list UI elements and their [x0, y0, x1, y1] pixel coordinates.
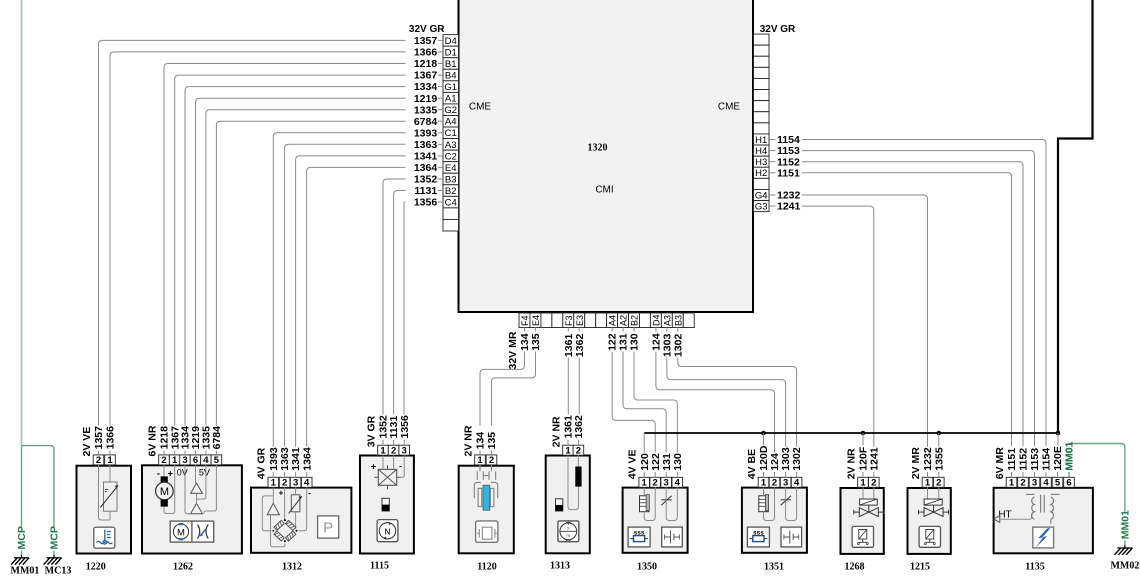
svg-text:5V: 5V: [199, 468, 210, 478]
svg-text:1356: 1356: [414, 197, 438, 209]
svg-text:A4: A4: [608, 315, 618, 326]
svg-text:1: 1: [380, 445, 386, 456]
ECU left pin B1: [443, 58, 459, 70]
svg-text:1151: 1151: [1006, 448, 1018, 471]
svg-text:1350: 1350: [637, 562, 657, 573]
svg-text:3: 3: [293, 478, 298, 489]
ECU bottom pin A3: [661, 313, 672, 328]
svg-text:3: 3: [182, 455, 187, 466]
ECU right pin G4: [754, 189, 770, 200]
svg-text:2: 2: [936, 478, 941, 489]
ECU right pin spare: [754, 178, 770, 189]
svg-text:2V MR: 2V MR: [910, 447, 922, 480]
svg-text:D1: D1: [445, 47, 457, 58]
ECU right pin G3: [754, 201, 770, 212]
svg-text:B3: B3: [445, 174, 457, 185]
svg-text:32V GR: 32V GR: [409, 24, 445, 35]
svg-text:+: +: [168, 469, 174, 480]
ECU bottom pin B2: [629, 313, 640, 328]
wire 1362 label at ECU: [578, 328, 580, 332]
svg-text:6: 6: [1066, 478, 1071, 489]
svg-text:4: 4: [675, 478, 681, 489]
svg-text:2: 2: [391, 445, 396, 456]
svg-text:4: 4: [794, 478, 800, 489]
svg-text:2V NR: 2V NR: [462, 425, 474, 456]
svg-text:6: 6: [193, 455, 198, 466]
svg-text:2: 2: [576, 445, 581, 456]
svg-text:2: 2: [161, 455, 166, 466]
svg-text:B1: B1: [445, 59, 457, 70]
svg-text:1262: 1262: [173, 562, 193, 573]
wire MCP lower segment: [21, 446, 23, 528]
svg-text:1313: 1313: [550, 561, 570, 572]
svg-text:1241: 1241: [868, 447, 880, 471]
svg-text:3V GR: 3V GR: [365, 415, 377, 447]
svg-text:1: 1: [761, 478, 767, 489]
svg-text:N: N: [384, 526, 390, 536]
ground MC13: [44, 555, 62, 565]
ECU right pin spare: [754, 90, 770, 101]
svg-text:2V NR: 2V NR: [550, 416, 562, 447]
svg-text:m: m: [566, 533, 570, 538]
svg-text:D4: D4: [445, 36, 457, 47]
component 1220 coolant temperature sensor: [77, 466, 132, 554]
svg-text:H2: H2: [755, 168, 767, 179]
svg-text:2: 2: [871, 478, 876, 489]
svg-text:3: 3: [1032, 478, 1037, 489]
wire 1153 from ECU pin: [770, 150, 776, 152]
component 1135 ignition coil: [994, 488, 1093, 554]
svg-text:1302: 1302: [672, 334, 684, 358]
wire 1302 label at ECU: [677, 328, 679, 332]
svg-text:-: -: [308, 488, 311, 498]
svg-text:135: 135: [486, 432, 498, 450]
svg-text:1366: 1366: [105, 426, 117, 450]
ECU bottom pin spare: [683, 313, 694, 328]
wire 120 bus: [644, 432, 1059, 434]
ECU bottom pin E3: [574, 313, 585, 328]
svg-text:6V MR: 6V MR: [994, 447, 1006, 480]
ECU bottom pin A2: [618, 313, 629, 328]
svg-text:6784: 6784: [414, 116, 438, 128]
component 1215 solenoid valve: [908, 488, 951, 554]
svg-text:F3: F3: [564, 315, 574, 326]
svg-text:1232: 1232: [922, 447, 934, 471]
wire 131 run: [623, 352, 666, 453]
wire MM01 dash: [1124, 541, 1126, 545]
svg-text:2: 2: [489, 455, 494, 466]
svg-text:1115: 1115: [370, 561, 389, 572]
svg-text:1219: 1219: [414, 93, 438, 105]
svg-text:CMI: CMI: [595, 185, 613, 196]
wire 1361 run: [567, 358, 569, 415]
svg-text:A2: A2: [619, 315, 629, 326]
component 1120 injector: [459, 466, 514, 554]
svg-text:H3: H3: [755, 157, 767, 168]
ECU bottom pin spare: [639, 313, 650, 328]
wire 120D riser to 1351 pin1: [763, 433, 765, 446]
ground MM01: [11, 555, 29, 565]
svg-text:120E: 120E: [1052, 446, 1064, 471]
svg-text:MM01: MM01: [1064, 441, 1076, 470]
svg-text:1: 1: [477, 455, 483, 466]
svg-text:G4: G4: [755, 190, 768, 201]
svg-text:1131: 1131: [414, 185, 437, 197]
svg-text:6V NR: 6V NR: [146, 425, 158, 456]
svg-text:1341: 1341: [414, 151, 438, 163]
ECU bottom pin F3: [563, 313, 574, 328]
junction at x=938.8: [937, 431, 942, 436]
svg-text:1356: 1356: [399, 415, 411, 439]
svg-text:M: M: [160, 486, 169, 498]
svg-text:2: 2: [1020, 478, 1025, 489]
svg-text:1241: 1241: [777, 201, 801, 213]
svg-text:MM01: MM01: [11, 566, 40, 577]
ECU left pin D1: [443, 46, 459, 58]
svg-text:+: +: [371, 462, 377, 473]
component 1262 throttle actuator: [142, 465, 242, 553]
svg-text:32V GR: 32V GR: [760, 24, 796, 35]
ECU left pin G1: [443, 81, 459, 93]
svg-text:2: 2: [772, 478, 777, 489]
wire 134 label at ECU: [524, 328, 526, 332]
junction at x=1058.0: [1056, 431, 1061, 436]
wire 120E riser to 1135 pin5: [1057, 433, 1059, 446]
svg-text:1362: 1362: [573, 415, 585, 439]
svg-text:A3: A3: [662, 315, 672, 326]
ECU bottom pin F4: [519, 313, 530, 328]
svg-text:B2: B2: [445, 186, 457, 197]
component 1115 engine speed sensor: [360, 456, 414, 554]
svg-text:1320: 1320: [588, 143, 608, 154]
svg-text:A3: A3: [445, 140, 457, 151]
svg-text:G2: G2: [444, 105, 457, 116]
svg-text:H1: H1: [755, 135, 767, 146]
svg-text:1357: 1357: [93, 426, 105, 450]
ECU bottom pin spare: [541, 313, 552, 328]
svg-text:MM01: MM01: [1120, 510, 1132, 539]
wire 1302 run: [678, 358, 797, 447]
ECU left pin A3: [443, 139, 459, 151]
ECU left pin D4: [443, 35, 459, 47]
svg-text:1351: 1351: [764, 562, 784, 573]
wire 1232 from ECU pin: [770, 194, 776, 196]
wire MCP branch to MC13: [22, 446, 55, 528]
wire 1241 from ECU pin: [770, 205, 776, 207]
svg-text:E4: E4: [445, 163, 457, 174]
component 1351 glow plug module: [742, 488, 807, 553]
svg-text:2V VE: 2V VE: [81, 427, 93, 457]
wire 1151 from ECU pin: [770, 172, 776, 174]
ECU left pin E4: [443, 162, 459, 174]
ECU right pin H2: [754, 167, 770, 178]
component 1312 pressure sensor: [251, 488, 351, 553]
svg-text:CME: CME: [718, 102, 741, 113]
svg-text:E3: E3: [575, 315, 585, 326]
ECU left pin C4: [443, 196, 459, 208]
ECU left pin C2: [443, 150, 459, 162]
svg-text:1: 1: [1009, 478, 1015, 489]
wire 1355 riser to 1215 pin2: [938, 433, 940, 447]
svg-text:1364: 1364: [414, 162, 438, 174]
ECU left pin A1: [443, 92, 459, 104]
svg-text:1152: 1152: [1018, 448, 1030, 471]
svg-text:+: +: [279, 488, 284, 498]
svg-text:1364: 1364: [301, 447, 313, 471]
svg-text:1367: 1367: [414, 70, 438, 82]
svg-text:C1: C1: [445, 128, 457, 139]
svg-text:A1: A1: [445, 94, 457, 105]
wire 120 riser to 1350 pin1: [643, 433, 645, 453]
wire 1303 run: [667, 358, 786, 447]
svg-text:D4: D4: [652, 314, 662, 326]
ECU left pin A4: [443, 115, 459, 127]
ECU right pin H3: [754, 156, 770, 167]
wire MCP dash left: [21, 551, 23, 555]
svg-text:1154: 1154: [1041, 448, 1053, 471]
ECU bottom pin spare: [596, 313, 607, 328]
junction at x=763.5: [761, 431, 766, 436]
svg-text:1355: 1355: [933, 447, 945, 471]
ECU left pin G2: [443, 104, 459, 116]
svg-text:E4: E4: [531, 315, 541, 326]
svg-text:MM02: MM02: [1110, 561, 1139, 572]
svg-text:-: -: [157, 469, 160, 480]
svg-text:B3: B3: [673, 315, 683, 326]
svg-text:1352: 1352: [414, 174, 438, 186]
svg-text:MCP: MCP: [49, 526, 61, 549]
ECU right pin spare: [754, 123, 770, 134]
wire 131 label at ECU: [622, 328, 624, 332]
ECU bottom pin B3: [672, 313, 683, 328]
junction at x=863.0: [861, 431, 866, 436]
wire 124 run: [656, 352, 775, 453]
svg-text:1: 1: [642, 478, 648, 489]
ECU right pin spare: [754, 112, 770, 123]
svg-text:B2: B2: [630, 315, 640, 326]
wire 135 run: [492, 352, 536, 426]
svg-text:130: 130: [629, 333, 641, 351]
svg-text:1153: 1153: [1029, 448, 1041, 471]
ECU bottom pin E4: [530, 313, 541, 328]
svg-text:4: 4: [203, 455, 209, 466]
ECU right pin spare: [754, 101, 770, 112]
wire 1154 from ECU pin: [770, 139, 776, 141]
wire 122 label at ECU: [611, 328, 613, 332]
svg-text:5: 5: [1055, 478, 1061, 489]
ECU bottom pin A4: [607, 313, 618, 328]
ECU left pin spare: [443, 219, 459, 231]
svg-text:0V: 0V: [177, 468, 188, 478]
wire 134 run: [480, 352, 525, 426]
svg-text:1302: 1302: [791, 447, 803, 471]
svg-text:G3: G3: [755, 202, 768, 213]
svg-text:1362: 1362: [574, 334, 586, 358]
svg-text:C4: C4: [445, 198, 457, 209]
wire 124 label at ECU: [655, 328, 657, 332]
svg-text:1220: 1220: [86, 562, 106, 573]
wire 120 feeder (thick): [1058, 0, 1093, 433]
wire 130 label at ECU: [633, 328, 635, 332]
svg-text:H4: H4: [755, 146, 767, 157]
svg-text:1120: 1120: [477, 562, 496, 573]
ECU bottom pin spare: [585, 313, 596, 328]
svg-text:3: 3: [783, 478, 788, 489]
ECU right pin spare: [754, 56, 770, 67]
ECU right pin spare: [754, 67, 770, 78]
svg-text:A4: A4: [445, 117, 457, 128]
wire MCP dash right: [53, 551, 55, 555]
svg-text:1268: 1268: [845, 562, 865, 573]
wire 130 run: [634, 352, 677, 453]
ECU left pin C1: [443, 127, 459, 139]
svg-text:B4: B4: [445, 70, 457, 81]
ECU right pin H4: [754, 145, 770, 156]
svg-text:3: 3: [402, 445, 407, 456]
ECU bottom pin D4: [650, 313, 661, 328]
svg-text:1: 1: [860, 478, 866, 489]
ECU left pin B3: [443, 173, 459, 185]
ECU bottom pin spare: [552, 313, 563, 328]
svg-text:130: 130: [672, 453, 684, 471]
svg-text:MCP: MCP: [16, 526, 28, 549]
wire 122 run: [612, 352, 655, 453]
component 1313 fuel pressure regulator: [546, 456, 590, 554]
wire 1152 from ECU pin: [770, 161, 776, 163]
wire 1362 run: [578, 358, 580, 415]
ECU right pin H1: [754, 134, 770, 145]
ECU left pin B2: [443, 185, 459, 197]
svg-text:3: 3: [664, 478, 669, 489]
svg-text:1363: 1363: [414, 139, 438, 151]
wire MM01 from 1135 pin6: [1068, 472, 1070, 478]
svg-text:1366: 1366: [414, 47, 438, 59]
svg-text:2: 2: [653, 478, 658, 489]
svg-text:M: M: [177, 527, 185, 538]
svg-text:1312: 1312: [282, 562, 302, 573]
wire 135 label at ECU: [534, 328, 536, 332]
wire 120F riser to 1268 pin1: [862, 433, 864, 446]
svg-text:134: 134: [475, 432, 487, 450]
svg-text:4V BE: 4V BE: [746, 449, 758, 479]
component 1350 glow plug module: [623, 488, 688, 553]
svg-text:MC13: MC13: [45, 566, 72, 577]
svg-text:5: 5: [214, 455, 220, 466]
ECU left pin spare: [443, 208, 459, 220]
svg-text:1215: 1215: [910, 562, 930, 573]
wire MCP main vertical: [21, 0, 23, 446]
svg-text:2: 2: [96, 455, 101, 466]
svg-text:1393: 1393: [268, 447, 280, 471]
svg-text:4: 4: [1043, 478, 1049, 489]
svg-text:1151: 1151: [777, 167, 800, 179]
ECU right pin spare: [754, 78, 770, 89]
svg-text:1: 1: [925, 478, 931, 489]
component 1268 solenoid valve: [841, 488, 884, 554]
svg-text:1: 1: [565, 445, 571, 456]
ECU left pin B4: [443, 69, 459, 81]
svg-text:C2: C2: [445, 151, 457, 162]
svg-text:32V MR: 32V MR: [507, 331, 519, 369]
wire 1303 label at ECU: [666, 328, 668, 332]
svg-text:1335: 1335: [414, 104, 438, 116]
svg-text:1135: 1135: [1025, 562, 1044, 573]
svg-text:4V GR: 4V GR: [256, 447, 268, 479]
svg-text:F4: F4: [520, 315, 530, 326]
svg-text:4V VE: 4V VE: [627, 450, 639, 480]
svg-text:1334: 1334: [414, 81, 438, 93]
svg-text:6784: 6784: [211, 426, 223, 450]
svg-text:135: 135: [530, 333, 542, 351]
ECU control unit 1320 body: [459, 0, 754, 312]
svg-text:1: 1: [271, 478, 277, 489]
svg-text:G1: G1: [444, 82, 457, 93]
svg-text:1: 1: [172, 455, 178, 466]
svg-text:P: P: [323, 520, 333, 537]
wire 1361 label at ECU: [567, 328, 569, 332]
svg-text:1357: 1357: [414, 35, 438, 47]
ground MM02: [1115, 545, 1133, 555]
ECU right pin spare: [754, 34, 770, 45]
svg-text:1393: 1393: [414, 127, 438, 139]
svg-text:1: 1: [107, 455, 113, 466]
svg-text:-: -: [399, 461, 402, 471]
svg-text:1218: 1218: [414, 58, 438, 70]
svg-text:CME: CME: [469, 102, 492, 113]
svg-text:2V NR: 2V NR: [845, 448, 857, 479]
ECU right pin spare: [754, 45, 770, 56]
